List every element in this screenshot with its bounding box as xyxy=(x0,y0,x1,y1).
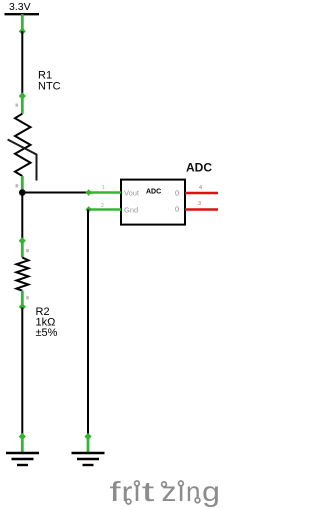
label R2 1kOhm 5% xyxy=(36,306,58,339)
ADC module U1 xyxy=(121,180,185,225)
svg-text:1: 1 xyxy=(102,185,105,191)
svg-text:4: 4 xyxy=(199,185,202,191)
power symbol 3.3V xyxy=(5,1,40,35)
ground symbol left xyxy=(6,433,39,465)
svg-text:0: 0 xyxy=(175,189,179,198)
ADC pin 1 Vout xyxy=(86,185,122,196)
svg-text:ADC: ADC xyxy=(146,189,161,196)
wire R2 to ground xyxy=(21,308,23,438)
svg-text:Vout: Vout xyxy=(124,189,140,198)
fritzing logo xyxy=(110,476,221,507)
svg-text:NTC: NTC xyxy=(38,81,61,93)
node junction xyxy=(19,189,26,196)
ADC pin 3 wire red xyxy=(185,201,218,210)
wire junction to ADC pin1 xyxy=(22,192,88,194)
svg-text:±5%: ±5% xyxy=(36,327,58,339)
svg-text:3: 3 xyxy=(198,201,201,207)
ADC pin 2 Gnd xyxy=(86,203,122,213)
svg-text:0: 0 xyxy=(175,204,179,213)
wire 3.3V to R1 xyxy=(21,31,23,96)
svg-text:Gnd: Gnd xyxy=(124,206,138,215)
ground symbol right xyxy=(72,433,105,465)
ADC pin 4 wire red xyxy=(185,185,218,193)
label R1 NTC xyxy=(38,70,61,93)
wire Gnd pin down xyxy=(87,210,89,438)
svg-text:2: 2 xyxy=(101,203,104,209)
svg-text:3.3V: 3.3V xyxy=(9,1,31,13)
resistor R2 xyxy=(16,237,28,310)
thermistor R1 xyxy=(8,92,37,190)
wire junction to R2 xyxy=(21,193,23,242)
svg-text:ADC: ADC xyxy=(186,161,212,175)
